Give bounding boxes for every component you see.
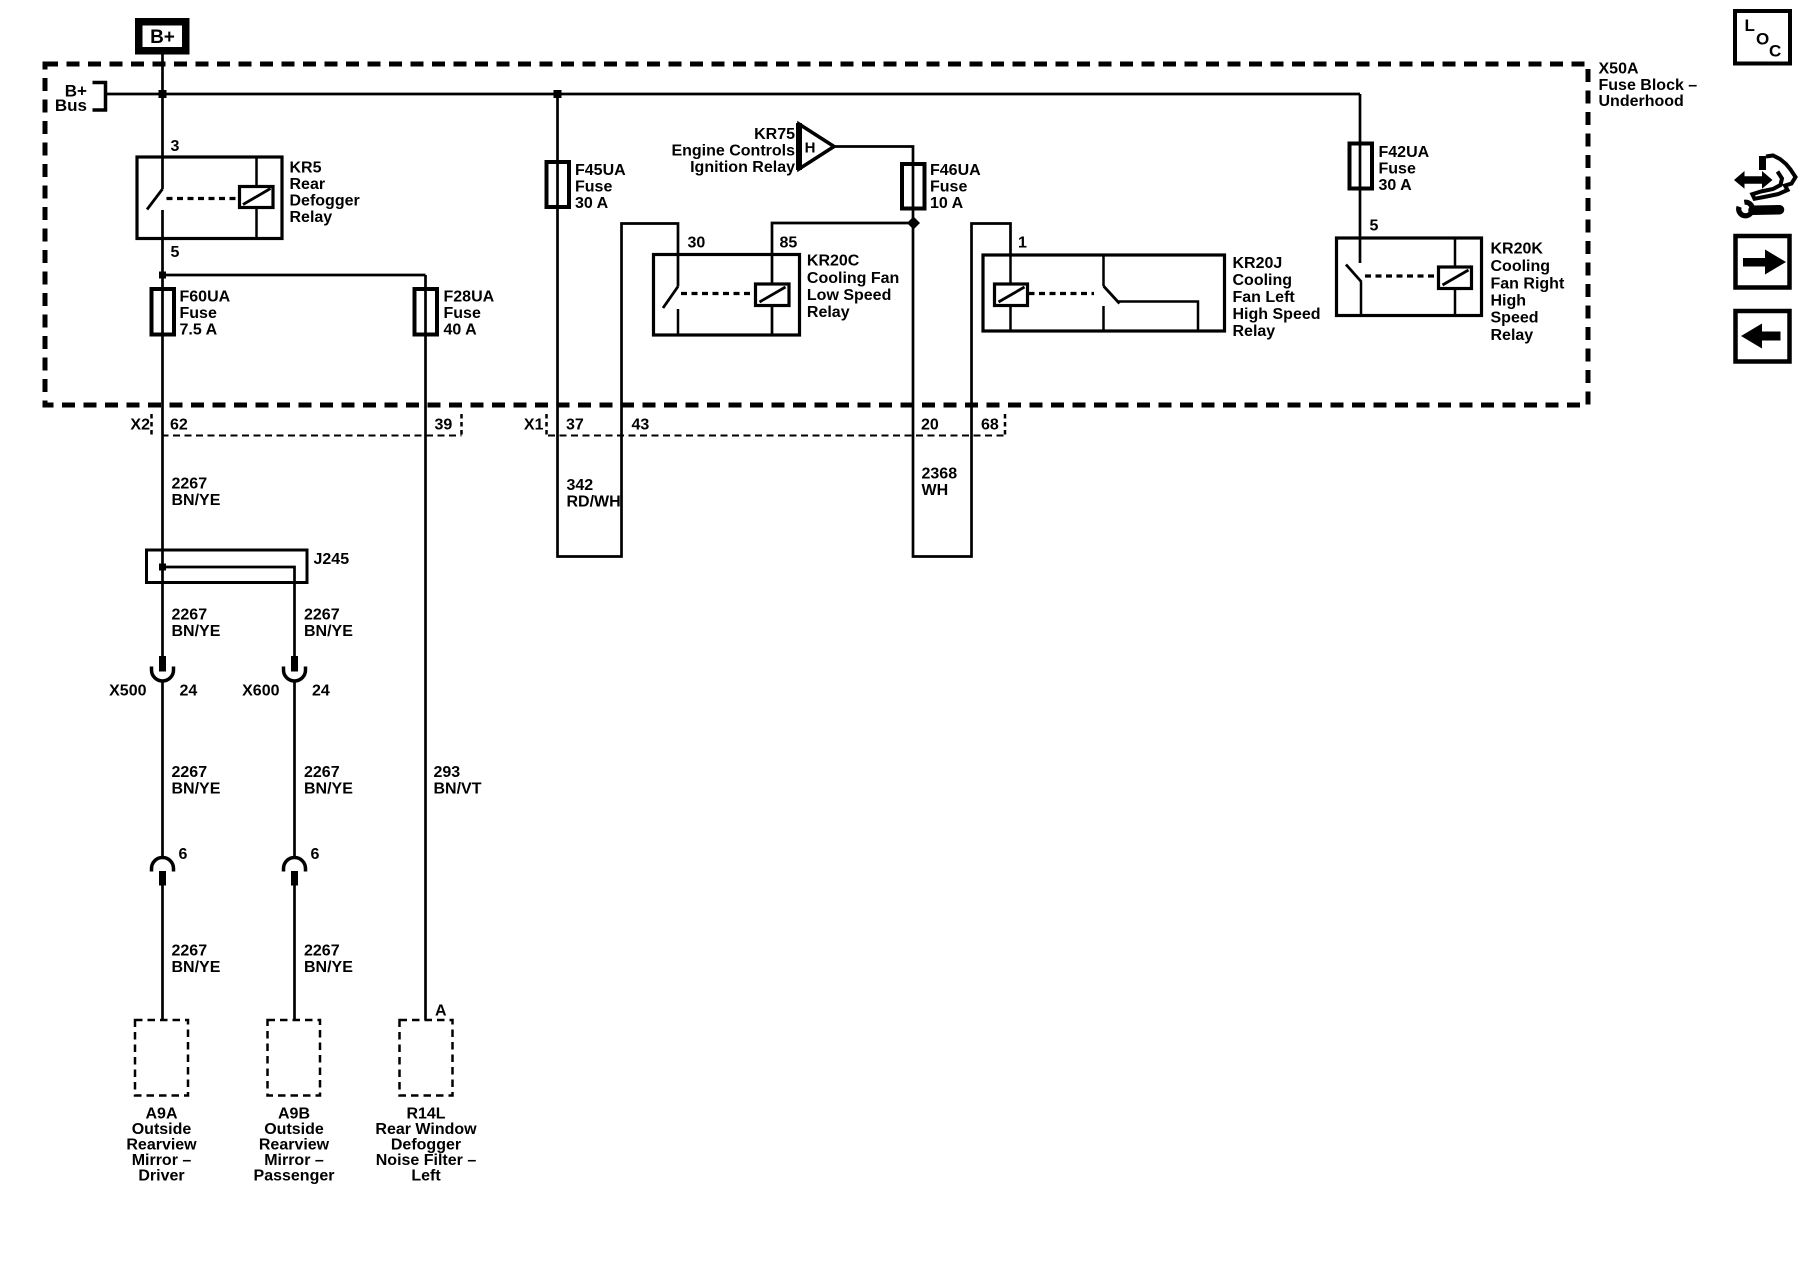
svg-text:A9A: A9A — [145, 1106, 177, 1123]
svg-text:H: H — [805, 140, 816, 157]
fuse F42UA 30 A — [1350, 144, 1373, 189]
connector terminal 6 right — [284, 858, 306, 886]
connector X2 labels — [130, 417, 452, 434]
svg-text:Low Speed: Low Speed — [807, 287, 891, 304]
label R14L Rear Window Defogger Noise Filter Left — [375, 1106, 477, 1185]
svg-text:F42UA: F42UA — [1379, 144, 1430, 161]
svg-text:Noise Filter –: Noise Filter – — [376, 1152, 477, 1169]
svg-text:2368: 2368 — [922, 466, 958, 483]
svg-text:Underhood: Underhood — [1599, 93, 1684, 110]
svg-text:5: 5 — [171, 244, 180, 261]
relay KR20C Cooling Fan Low Speed Relay — [654, 255, 800, 336]
relay KR75 Engine Controls Ignition Relay triangle — [799, 123, 834, 170]
svg-text:5: 5 — [1370, 218, 1379, 235]
junction at B+ feed on bus — [159, 90, 167, 98]
wire B+ bus horizontal — [107, 93, 1360, 96]
svg-text:BN/YE: BN/YE — [304, 781, 353, 798]
svg-text:B+: B+ — [150, 27, 175, 48]
svg-text:X1: X1 — [524, 417, 544, 434]
label A9A Outside Rearview Mirror Driver — [126, 1106, 197, 1185]
icon back arrow box — [1736, 311, 1790, 362]
node B+ Bus bracket — [55, 82, 106, 116]
svg-text:Rear: Rear — [290, 176, 326, 193]
svg-text:A9B: A9B — [278, 1106, 310, 1123]
connector X1 dashed line — [548, 435, 1005, 437]
label A9B Outside Rearview Mirror Passenger — [254, 1106, 335, 1185]
label wire 2267 BN/YE lower left — [172, 943, 221, 977]
svg-text:KR5: KR5 — [290, 160, 322, 177]
svg-text:40 A: 40 A — [444, 322, 478, 339]
wire 293 BN/VT through fuse F28UA down to R14L — [424, 275, 427, 1020]
svg-text:F60UA: F60UA — [180, 289, 231, 306]
svg-text:342: 342 — [567, 477, 594, 494]
wire junction to fuse F28UA branch — [163, 274, 426, 277]
connector X2 dashed line — [162, 435, 462, 437]
svg-text:X2: X2 — [130, 417, 150, 434]
label F60UA Fuse 7.5 A — [180, 289, 231, 339]
icon LOC box — [1735, 11, 1790, 64]
svg-text:Ignition Relay: Ignition Relay — [690, 159, 795, 176]
svg-text:30: 30 — [688, 235, 706, 252]
svg-text:Relay: Relay — [290, 209, 333, 226]
svg-text:30 A: 30 A — [575, 195, 609, 212]
svg-text:BN/VT: BN/VT — [434, 781, 482, 798]
svg-text:BN/YE: BN/YE — [172, 623, 221, 640]
icon diagnostic wrench arrow — [1734, 156, 1796, 216]
svg-text:2267: 2267 — [172, 764, 208, 781]
component R14L Rear Window Defogger Noise Filter dashed box — [400, 1020, 453, 1096]
junction at F45UA drop on bus — [554, 90, 562, 98]
svg-text:1: 1 — [1018, 235, 1027, 252]
label KR20K Cooling Fan Right High Speed Relay — [1491, 241, 1565, 345]
label connector X600 pin 24 — [242, 683, 330, 700]
label KR5 Rear Defogger Relay — [290, 160, 360, 227]
svg-text:X50A: X50A — [1599, 61, 1639, 78]
component A9A Outside Rearview Mirror Driver dashed box — [135, 1020, 188, 1096]
svg-text:A: A — [435, 1003, 447, 1020]
svg-text:High Speed: High Speed — [1233, 306, 1321, 323]
power symbol B+ — [135, 18, 190, 55]
svg-text:Fuse Block –: Fuse Block – — [1599, 77, 1698, 94]
svg-text:Relay: Relay — [807, 304, 850, 321]
svg-text:37: 37 — [566, 417, 584, 434]
svg-text:Fuse: Fuse — [444, 305, 481, 322]
svg-text:Outside: Outside — [132, 1121, 192, 1138]
svg-text:3: 3 — [171, 138, 180, 155]
svg-text:High: High — [1491, 293, 1527, 310]
svg-text:Speed: Speed — [1491, 310, 1539, 327]
svg-text:Fan Left: Fan Left — [1233, 289, 1296, 306]
label wire 2368 WH — [922, 466, 958, 500]
splice J245 — [147, 550, 308, 583]
svg-text:24: 24 — [180, 683, 198, 700]
component A9B Outside Rearview Mirror Passenger dashed box — [268, 1020, 321, 1096]
svg-text:C: C — [1769, 42, 1781, 61]
svg-text:BN/YE: BN/YE — [172, 959, 221, 976]
label wire 2267 BN/YE upper — [172, 476, 221, 510]
label KR20J Cooling Fan Left High Speed Relay — [1233, 255, 1321, 340]
svg-text:2267: 2267 — [172, 607, 208, 624]
label wire 2267 BN/YE mid left — [172, 764, 221, 798]
connector X1 separator — [545, 414, 548, 436]
wire 2267 BN/YE X600 down — [293, 682, 296, 859]
svg-text:KR20J: KR20J — [1233, 255, 1283, 272]
svg-text:2267: 2267 — [304, 607, 340, 624]
label F46UA Fuse 10 A — [930, 162, 981, 212]
label wire 2267 BN/YE mid right — [304, 764, 353, 798]
svg-text:39: 39 — [435, 417, 453, 434]
svg-text:2267: 2267 — [172, 476, 208, 493]
svg-text:Rearview: Rearview — [259, 1137, 330, 1154]
svg-text:30 A: 30 A — [1379, 177, 1413, 194]
svg-text:Relay: Relay — [1233, 323, 1276, 340]
svg-text:293: 293 — [434, 764, 461, 781]
wire junction to relay KR20C pin 85 coil — [772, 223, 914, 335]
svg-text:2267: 2267 — [304, 764, 340, 781]
svg-text:Fan Right: Fan Right — [1491, 276, 1565, 293]
wire B+ feed down to relay KR5 — [161, 54, 164, 189]
svg-text:J245: J245 — [314, 551, 350, 568]
svg-text:Relay: Relay — [1491, 327, 1534, 344]
svg-text:Rearview: Rearview — [126, 1137, 197, 1154]
connector X600 bullet — [284, 656, 306, 681]
label wire 2267 BN/YE below splice right — [304, 607, 353, 641]
wire 2267 BN/YE X500 to splice — [161, 682, 164, 859]
svg-text:Defogger: Defogger — [290, 193, 360, 210]
svg-text:O: O — [1756, 30, 1769, 49]
svg-text:Cooling: Cooling — [1233, 272, 1293, 289]
label F28UA Fuse 40 A — [444, 289, 495, 339]
svg-text:2267: 2267 — [304, 943, 340, 960]
label connector X500 pin 24 — [109, 683, 197, 700]
wire 2267 BN/YE to A9A — [161, 886, 164, 1021]
svg-text:L: L — [1745, 16, 1755, 35]
svg-text:BN/YE: BN/YE — [172, 492, 221, 509]
svg-text:7.5 A: 7.5 A — [180, 322, 218, 339]
svg-text:R14L: R14L — [406, 1106, 445, 1123]
svg-text:Passenger: Passenger — [254, 1168, 335, 1185]
label KR20C Cooling Fan Low Speed Relay — [807, 253, 899, 322]
svg-text:Fuse: Fuse — [1379, 161, 1416, 178]
svg-text:68: 68 — [981, 417, 999, 434]
svg-text:Bus: Bus — [55, 96, 87, 115]
relay KR20J Cooling Fan Left High Speed Relay — [983, 255, 1225, 331]
connector X1 labels — [524, 417, 999, 434]
svg-text:KR75: KR75 — [754, 126, 795, 143]
svg-text:F28UA: F28UA — [444, 289, 495, 306]
svg-text:Mirror –: Mirror – — [264, 1152, 324, 1169]
svg-text:BN/YE: BN/YE — [172, 781, 221, 798]
svg-text:BN/YE: BN/YE — [304, 623, 353, 640]
label wire 2267 BN/YE below splice left — [172, 607, 221, 641]
connector terminal 6 left — [152, 858, 174, 886]
connector X2 separator — [150, 414, 153, 436]
relay KR20K Cooling Fan Right High Speed Relay — [1337, 238, 1482, 316]
svg-text:Fuse: Fuse — [575, 179, 612, 196]
fuse F28UA 40 A — [415, 289, 438, 335]
svg-text:43: 43 — [632, 417, 650, 434]
svg-text:Engine Controls: Engine Controls — [671, 143, 795, 160]
svg-text:Driver: Driver — [138, 1168, 184, 1185]
fuse block X50A dashed border — [45, 64, 1588, 405]
label F45UA Fuse 30 A — [575, 162, 626, 212]
connector pin 68 separator — [1004, 414, 1007, 436]
svg-text:20: 20 — [921, 417, 939, 434]
svg-text:Rear Window: Rear Window — [375, 1121, 477, 1138]
svg-text:Cooling: Cooling — [1491, 258, 1551, 275]
svg-text:85: 85 — [780, 235, 798, 252]
svg-text:Mirror –: Mirror – — [132, 1152, 192, 1169]
svg-text:6: 6 — [179, 846, 188, 863]
svg-text:F46UA: F46UA — [930, 162, 981, 179]
icon forward arrow box — [1736, 236, 1790, 288]
svg-text:X500: X500 — [109, 683, 146, 700]
label F42UA Fuse 30 A — [1379, 144, 1430, 194]
fuse F45UA 30 A — [547, 162, 570, 207]
relay KR5 Rear Defogger Relay — [137, 157, 282, 239]
svg-text:BN/YE: BN/YE — [304, 959, 353, 976]
fuse F60UA 7.5 A — [152, 289, 175, 335]
label wire 293 BN/VT — [434, 764, 482, 798]
svg-text:62: 62 — [170, 417, 188, 434]
wire 2267 BN/YE to A9B — [293, 886, 296, 1021]
wire KR5 switch common down to junction and fuse F60UA and connector X2 pin 62 — [161, 210, 164, 656]
junction below KR5 pin 5 — [159, 272, 166, 279]
wire splice J245 branch to X600 — [163, 567, 295, 656]
svg-text:WH: WH — [922, 482, 949, 499]
label KR75 Engine Controls Ignition Relay — [671, 126, 795, 176]
svg-text:Fuse: Fuse — [180, 305, 217, 322]
connector X500 bullet — [152, 656, 174, 681]
svg-text:24: 24 — [312, 683, 330, 700]
svg-text:X600: X600 — [242, 683, 279, 700]
svg-text:2267: 2267 — [172, 943, 208, 960]
svg-text:Outside: Outside — [264, 1121, 324, 1138]
wire bus to fuse F45UA, 342 RD/WH loop pins 37-43, to relay KR20C pin 30 — [558, 94, 679, 557]
label X50A Fuse Block Underhood — [1599, 61, 1698, 111]
svg-text:RD/WH: RD/WH — [567, 494, 621, 511]
wire bus to fuse F42UA to relay KR20K pin 5 — [1359, 94, 1362, 263]
svg-text:KR20K: KR20K — [1491, 241, 1544, 258]
svg-text:Left: Left — [411, 1168, 441, 1185]
svg-text:10 A: 10 A — [930, 195, 964, 212]
fuse F46UA 10 A — [902, 164, 925, 209]
svg-text:F45UA: F45UA — [575, 162, 626, 179]
label wire 2267 BN/YE lower right — [304, 943, 353, 977]
junction below fuse F46UA — [907, 217, 920, 230]
svg-text:Defogger: Defogger — [391, 1137, 461, 1154]
wire KR75 output through fuse F46UA, 2368 WH loop pins 20-68, to relay KR20J pin 1 — [834, 147, 1011, 557]
connector pin 39 separator — [460, 414, 463, 436]
svg-text:Fuse: Fuse — [930, 179, 967, 196]
label wire 342 RD/WH — [567, 477, 621, 511]
svg-text:KR20C: KR20C — [807, 253, 860, 270]
svg-text:Cooling Fan: Cooling Fan — [807, 270, 899, 287]
svg-text:6: 6 — [311, 846, 320, 863]
